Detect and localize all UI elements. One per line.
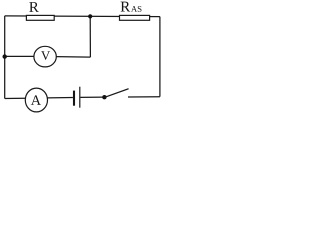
battery positive plate (long thin) (79, 87, 81, 108)
wire: top rail (5, 15, 160, 18)
wire: voltmeter branch left (5, 55, 34, 57)
wire: ammeter to battery (48, 97, 73, 99)
node: top junction dot (88, 14, 92, 18)
rheostat RAS (120, 2, 150, 21)
switch blade (open) (105, 89, 129, 98)
battery negative plate (short thick) (73, 91, 75, 106)
wire: right rail (159, 17, 161, 97)
ammeter A (25, 88, 47, 112)
wire: battery to switch pivot (80, 96, 104, 98)
switch pivot node (102, 95, 106, 99)
wire: voltmeter branch vertical riser (89, 16, 91, 57)
node: left junction dot (2, 54, 6, 58)
wire: switch contact to bottom-right corner (128, 96, 160, 98)
voltmeter V (34, 46, 56, 67)
wire: left rail (4, 16, 6, 99)
wire: bottom rail left segment (corner to ammeter) (5, 97, 26, 99)
resistor R (26, 2, 54, 20)
wire: voltmeter branch right (56, 56, 90, 59)
